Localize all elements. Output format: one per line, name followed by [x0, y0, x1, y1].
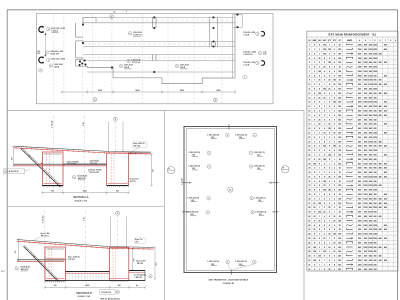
svg-text:900: 900 [374, 146, 377, 148]
svg-text:900: 900 [358, 176, 361, 178]
svg-text:900: 900 [358, 269, 361, 271]
svg-text:400: 400 [384, 237, 387, 240]
svg-text:2: 2 [329, 181, 330, 183]
svg-text:400: 400 [384, 110, 387, 113]
plan beam strip 1 [96, 16, 235, 18]
svg-text:25: 25 [339, 207, 341, 209]
svg-text:b: b [177, 66, 178, 68]
svg-text:1250: 1250 [358, 102, 362, 104]
svg-text:650: 650 [358, 185, 361, 187]
svg-text:650: 650 [374, 119, 377, 121]
svg-text:8: 8 [314, 242, 315, 244]
svg-text:900: 900 [364, 251, 367, 253]
svg-text:a: a [250, 153, 251, 155]
svg-text:25: 25 [313, 229, 315, 231]
svg-text:400: 400 [384, 167, 387, 170]
svg-text:1500: 1500 [358, 155, 362, 157]
svg-text:800: 800 [364, 45, 367, 47]
svg-text:4-DH-125-+1500: 4-DH-125-+1500 [51, 27, 65, 30]
svg-text:800: 800 [374, 216, 377, 218]
svg-text:8: 8 [329, 203, 330, 205]
svg-text:1500: 1500 [368, 247, 372, 249]
svg-text:150: 150 [338, 93, 341, 95]
detail border tick left upper [182, 182, 189, 184]
svg-text:800: 800 [364, 238, 367, 240]
svg-text:8: 8 [334, 89, 335, 91]
svg-text:400: 400 [374, 250, 377, 253]
svg-text:150: 150 [338, 220, 341, 222]
svg-text:1-DH-125-+1500: 1-DH-125-+1500 [51, 59, 65, 61]
svg-text:45: 45 [308, 237, 310, 240]
svg-text:1250: 1250 [368, 141, 372, 143]
svg-text:400: 400 [379, 228, 382, 231]
svg-text:400: 400 [364, 171, 367, 174]
svg-text:25: 25 [318, 220, 320, 222]
svg-text:52: 52 [308, 269, 310, 271]
svg-text:150: 150 [328, 190, 331, 192]
svg-text:11: 11 [308, 89, 310, 91]
svg-text:25: 25 [333, 133, 335, 135]
svg-text:a: a [227, 262, 228, 264]
svg-text:800: 800 [364, 89, 367, 91]
svg-text:8: 8 [329, 185, 330, 187]
svg-text:8: 8 [329, 172, 330, 174]
svg-text:800: 800 [374, 168, 377, 170]
svg-text:25: 25 [328, 269, 330, 271]
panel divider vertical sections/detail [163, 111, 165, 300]
svg-text:SCALE 1:100: SCALE 1:100 [75, 200, 88, 203]
svg-text:8: 8 [334, 53, 335, 55]
svg-text:1500: 1500 [363, 234, 367, 236]
svg-text:1250: 1250 [373, 89, 377, 91]
svg-text:2: 2 [319, 269, 320, 271]
svg-text:25: 25 [308, 150, 310, 152]
svg-text:2: 2 [334, 93, 335, 95]
svg-text:8: 8 [334, 106, 335, 108]
svg-text:1: 1 [319, 168, 320, 170]
svg-text:2: 2 [319, 111, 320, 113]
svg-text:8: 8 [319, 102, 320, 104]
svg-text:20: 20 [308, 128, 310, 130]
svg-text:150: 150 [338, 176, 341, 178]
svg-text:1500: 1500 [358, 194, 362, 196]
svg-text:8: 8 [324, 256, 325, 258]
section A-A grid bubble [113, 117, 117, 121]
svg-text:650: 650 [358, 133, 361, 135]
svg-text:a: a [209, 153, 210, 155]
plan mat right edge [234, 15, 236, 78]
svg-text:6: 6 [309, 67, 310, 69]
detail annotation right row1 [249, 151, 265, 156]
svg-text:SECTION B-B: SECTION B-B [76, 292, 92, 295]
svg-text:150: 150 [338, 256, 341, 258]
svg-text:900: 900 [364, 53, 367, 55]
table header bottom line [307, 41, 398, 43]
svg-text:1-DH-B-150: 1-DH-B-150 [101, 292, 111, 294]
svg-text:T-TYP-.06: T-TYP-.06 [132, 62, 141, 64]
svg-text:8: 8 [324, 119, 325, 121]
svg-text:10: 10 [308, 84, 310, 86]
svg-text:150: 150 [313, 163, 316, 165]
svg-text:150: 150 [318, 212, 321, 214]
svg-text:8: 8 [319, 181, 320, 183]
svg-text:8: 8 [314, 212, 315, 214]
plan stirrup ticks [152, 17, 154, 28]
detail inner rectangle [186, 129, 274, 271]
svg-text:50: 50 [308, 260, 310, 262]
svg-text:8: 8 [319, 225, 320, 227]
svg-text:1: 1 [334, 119, 335, 121]
svg-text:400: 400 [369, 171, 372, 174]
svg-text:8x: 8x [136, 285, 138, 287]
svg-text:8: 8 [329, 133, 330, 135]
svg-text:400: 400 [364, 57, 367, 60]
svg-text:400: 400 [379, 61, 382, 64]
svg-text:E: E [380, 40, 381, 42]
svg-text:400: 400 [369, 123, 372, 126]
detail border tick right lower [272, 211, 279, 213]
section A-A pit 1 [42, 152, 63, 186]
svg-text:900: 900 [374, 256, 377, 258]
svg-text:900: 900 [374, 212, 377, 214]
svg-text:F: F [385, 40, 386, 42]
svg-text:650: 650 [369, 71, 372, 73]
svg-text:650: 650 [369, 260, 372, 262]
svg-text:1500: 1500 [358, 49, 362, 51]
svg-text:2: 2 [324, 115, 325, 117]
svg-text:2: 2 [329, 58, 330, 60]
svg-text:150: 150 [323, 181, 326, 183]
svg-text:150: 150 [338, 97, 341, 99]
svg-text:1250: 1250 [373, 225, 377, 227]
svg-text:1: 1 [324, 102, 325, 104]
svg-text:a: a [74, 177, 75, 179]
section B-B left dimension [18, 240, 20, 261]
svg-text:400: 400 [384, 123, 387, 126]
svg-text:8: 8 [329, 225, 330, 227]
svg-text:800: 800 [358, 159, 361, 161]
svg-text:1500: 1500 [373, 207, 377, 209]
svg-text:900: 900 [358, 93, 361, 95]
svg-text:25: 25 [339, 146, 341, 148]
svg-text:900: 900 [156, 263, 158, 266]
svg-text:25: 25 [313, 207, 315, 209]
svg-text:SECTION A-A: SECTION A-A [73, 196, 89, 199]
svg-text:25: 25 [318, 119, 320, 121]
svg-text:400: 400 [384, 175, 387, 178]
svg-text:800: 800 [374, 80, 377, 82]
svg-text:150: 150 [338, 124, 341, 126]
svg-text:900: 900 [369, 269, 372, 271]
svg-text:8: 8 [329, 102, 330, 104]
svg-text:1: 1 [244, 77, 245, 79]
svg-text:B-DH-B-40: B-DH-B-40 [20, 266, 29, 269]
svg-text:2: 2 [319, 198, 320, 200]
svg-text:8: 8 [319, 75, 320, 77]
svg-text:8: 8 [334, 185, 335, 187]
svg-text:400: 400 [384, 61, 387, 64]
panel divider vertical detail/table [303, 111, 305, 300]
svg-text:150: 150 [338, 269, 341, 271]
svg-text:8: 8 [334, 155, 335, 157]
svg-text:150: 150 [338, 102, 341, 104]
svg-text:800: 800 [374, 155, 377, 157]
svg-text:51: 51 [308, 264, 310, 266]
svg-text:400: 400 [364, 255, 367, 258]
svg-text:150: 150 [338, 150, 341, 152]
svg-text:39: 39 [308, 212, 310, 214]
svg-text:8: 8 [329, 229, 330, 231]
svg-text:43: 43 [308, 228, 310, 231]
svg-text:a: a [48, 29, 49, 31]
panel divider horizontal under plan [7, 110, 304, 112]
svg-text:150: 150 [338, 128, 341, 130]
section B-B grid bubble [116, 211, 120, 215]
svg-text:25: 25 [313, 238, 315, 240]
svg-text:2: 2 [319, 155, 320, 157]
svg-text:1: 1 [329, 97, 330, 99]
svg-text:9: 9 [117, 213, 118, 215]
plan grid bubble bottom 2 [214, 98, 218, 102]
svg-text:150: 150 [338, 251, 341, 253]
svg-text:150: 150 [338, 53, 341, 55]
svg-text:400: 400 [379, 206, 382, 209]
svg-text:900: 900 [364, 93, 367, 95]
sheet border left [6, 10, 8, 300]
svg-text:1250: 1250 [363, 264, 367, 266]
svg-text:650: 650 [369, 159, 372, 161]
svg-text:8: 8 [329, 67, 330, 69]
svg-text:650: 650 [364, 229, 367, 231]
svg-text:400: 400 [379, 52, 382, 55]
svg-text:1500: 1500 [358, 260, 362, 262]
plan beam dashed centerlines [96, 19, 235, 21]
svg-text:8: 8 [329, 119, 330, 121]
svg-text:900: 900 [374, 203, 377, 205]
svg-text:25: 25 [323, 133, 325, 135]
section B-B slab bottom left [17, 259, 66, 261]
section A-A mid annotation circle [72, 176, 75, 179]
svg-text:1-7x-150: 1-7x-150 [181, 178, 183, 184]
section B-B boxed label near title [100, 290, 115, 295]
svg-text:25: 25 [323, 97, 325, 99]
svg-text:28: 28 [308, 163, 310, 165]
section A-A red square node [41, 163, 43, 165]
detail border tick top [228, 124, 230, 129]
svg-text:400: 400 [358, 96, 361, 99]
svg-text:8: 8 [329, 256, 330, 258]
svg-text:8: 8 [319, 190, 320, 192]
svg-text:150: 150 [323, 89, 326, 91]
svg-text:a: a [257, 33, 258, 35]
svg-text:1500: 1500 [358, 45, 362, 47]
svg-text:49: 49 [308, 255, 310, 258]
svg-text:800: 800 [374, 198, 377, 200]
svg-text:8: 8 [334, 264, 335, 266]
svg-text:2: 2 [329, 141, 330, 143]
svg-text:900: 900 [51, 191, 54, 193]
svg-text:8: 8 [329, 146, 330, 148]
svg-text:1500: 1500 [368, 264, 372, 266]
section A-A pedestal lines [108, 122, 110, 152]
svg-text:2: 2 [309, 49, 310, 51]
svg-text:150: 150 [323, 146, 326, 148]
svg-text:8: 8 [329, 216, 330, 218]
plan bottom dimension line [62, 91, 235, 93]
detail center circle [228, 187, 233, 192]
svg-text:1500: 1500 [368, 102, 372, 104]
svg-text:650: 650 [369, 256, 372, 258]
svg-text:1: 1 [334, 212, 335, 214]
svg-text:21: 21 [308, 133, 310, 135]
svg-text:8: 8 [324, 155, 325, 157]
plan right annotation 2 [243, 51, 267, 56]
svg-text:150-B: 150-B [54, 67, 60, 69]
plan view frame [36, 14, 273, 104]
plan annotation row2 left [37, 51, 63, 56]
svg-text:8: 8 [324, 163, 325, 165]
svg-text:900: 900 [369, 137, 372, 139]
svg-text:1250: 1250 [363, 176, 367, 178]
svg-text:1500: 1500 [368, 176, 372, 178]
svg-text:400: 400 [384, 154, 387, 157]
svg-text:a: a [257, 63, 258, 65]
svg-text:1250: 1250 [363, 194, 367, 196]
svg-text:1: 1 [319, 194, 320, 196]
plan right annotation 1 [243, 31, 265, 36]
svg-text:150: 150 [338, 119, 341, 121]
svg-text:1: 1 [329, 251, 330, 253]
svg-text:400: 400 [358, 149, 361, 152]
svg-text:1500: 1500 [363, 247, 367, 249]
svg-text:8: 8 [334, 71, 335, 73]
svg-text:1: 1 [324, 84, 325, 86]
svg-text:900: 900 [364, 260, 367, 262]
svg-text:800: 800 [369, 190, 372, 192]
svg-text:900: 900 [369, 216, 372, 218]
svg-text:1500: 1500 [358, 168, 362, 170]
svg-text:8: 8 [334, 62, 335, 64]
svg-text:1500: 1500 [373, 71, 377, 73]
svg-text:8: 8 [334, 172, 335, 174]
svg-text:150: 150 [338, 238, 341, 240]
svg-text:900: 900 [11, 157, 13, 160]
svg-text:8: 8 [329, 75, 330, 77]
svg-text:1: 1 [314, 155, 315, 157]
svg-text:400: 400 [384, 193, 387, 196]
svg-text:400: 400 [384, 132, 387, 135]
svg-text:41: 41 [308, 219, 310, 222]
svg-text:800: 800 [358, 124, 361, 126]
svg-text:800: 800 [364, 119, 367, 121]
svg-text:8: 8 [314, 220, 315, 222]
svg-text:400: 400 [374, 193, 377, 196]
svg-text:00: 00 [113, 12, 115, 14]
detail border tick right upper [272, 182, 279, 184]
section B-B right dimension [154, 247, 156, 278]
table row lines [307, 46, 398, 48]
svg-text:2: 2 [319, 247, 320, 249]
svg-text:SCALE 1:100: SCALE 1:100 [78, 295, 91, 298]
svg-text:2: 2 [324, 124, 325, 126]
svg-text:650: 650 [374, 111, 377, 113]
svg-text:150: 150 [323, 190, 326, 192]
svg-text:400: 400 [364, 215, 367, 218]
svg-text:8: 8 [314, 89, 315, 91]
svg-text:8: 8 [314, 190, 315, 192]
plan beam strip 2 [83, 41, 235, 43]
svg-text:8: 8 [319, 163, 320, 165]
svg-text:150: 150 [338, 58, 341, 60]
svg-text:25: 25 [339, 80, 341, 82]
svg-text:8: 8 [319, 150, 320, 152]
svg-text:1: 1 [319, 234, 320, 236]
svg-text:8: 8 [329, 150, 330, 152]
svg-text:900: 900 [374, 269, 377, 271]
svg-text:8: 8 [334, 67, 335, 69]
svg-text:150: 150 [323, 45, 326, 47]
svg-text:12: 12 [308, 93, 310, 95]
svg-text:2: 2 [324, 106, 325, 108]
svg-text:400: 400 [384, 197, 387, 200]
section A-A slab bottom left rebar [14, 165, 107, 167]
table title underline row [307, 36, 398, 38]
svg-text:4600: 4600 [86, 284, 90, 287]
plan left vertical leader [44, 33, 46, 57]
svg-text:23: 23 [308, 141, 310, 143]
svg-text:8: 8 [324, 71, 325, 73]
svg-text:a: a [251, 198, 252, 200]
svg-text:900: 900 [116, 191, 119, 193]
svg-text:900: 900 [369, 119, 372, 121]
svg-text:1250: 1250 [368, 238, 372, 240]
svg-text:400: 400 [369, 44, 372, 47]
svg-text:8: 8 [319, 106, 320, 108]
svg-text:1250: 1250 [363, 225, 367, 227]
svg-text:8: 8 [329, 264, 330, 266]
svg-text:a: a [130, 33, 131, 35]
svg-text:25: 25 [328, 234, 330, 236]
svg-text:b: b [121, 66, 122, 68]
svg-text:150-B TYP: 150-B TYP [67, 164, 77, 166]
section B-B circle annotation left [15, 267, 18, 270]
svg-text:8: 8 [334, 238, 335, 240]
svg-text:25: 25 [328, 176, 330, 178]
svg-text:400: 400 [384, 246, 387, 249]
svg-text:650: 650 [369, 93, 372, 95]
svg-text:400: 400 [379, 114, 382, 117]
svg-text:8: 8 [334, 97, 335, 99]
svg-text:400: 400 [379, 237, 382, 240]
svg-text:1250: 1250 [373, 133, 377, 135]
svg-text:650: 650 [369, 234, 372, 236]
svg-text:400: 400 [379, 175, 382, 178]
svg-text:800: 800 [364, 137, 367, 139]
svg-text:650: 650 [358, 84, 361, 86]
svg-text:150: 150 [313, 247, 316, 249]
svg-text:1: 1 [319, 133, 320, 135]
svg-text:1250: 1250 [373, 84, 377, 86]
svg-text:25: 25 [339, 229, 341, 231]
svg-text:900: 900 [358, 238, 361, 240]
svg-text:900: 900 [364, 84, 367, 86]
plan left oval symbol [38, 69, 43, 72]
svg-text:8: 8 [324, 168, 325, 170]
svg-text:150: 150 [338, 115, 341, 117]
svg-text:900: 900 [364, 242, 367, 244]
svg-text:8: 8 [334, 115, 335, 117]
svg-text:900: 900 [364, 168, 367, 170]
